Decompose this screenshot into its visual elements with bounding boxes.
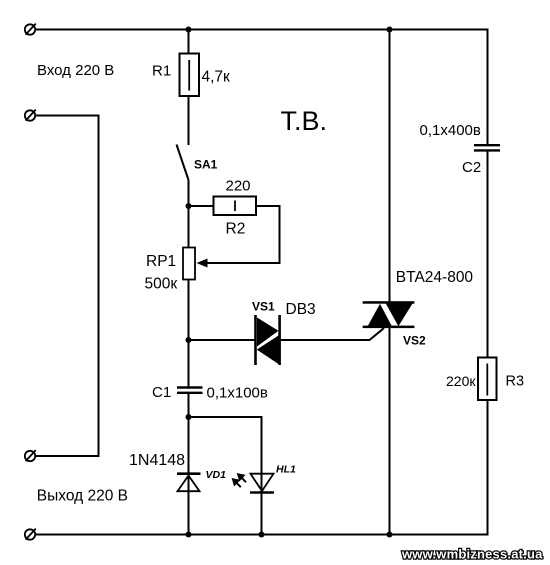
svg-text:500к: 500к (145, 276, 178, 293)
svg-text:4,7к: 4,7к (202, 69, 231, 86)
svg-text:RP1: RP1 (146, 253, 176, 270)
svg-text:0,1x100в: 0,1x100в (207, 385, 268, 402)
svg-text:R2: R2 (226, 221, 246, 238)
svg-text:www.wmbizness.at.ua: www.wmbizness.at.ua (401, 547, 543, 562)
svg-text:DB3: DB3 (286, 301, 316, 318)
svg-text:R3: R3 (506, 374, 525, 390)
svg-text:1N4148: 1N4148 (129, 452, 185, 469)
svg-text:R1: R1 (152, 63, 171, 80)
svg-text:BTA24-800: BTA24-800 (396, 269, 474, 286)
svg-text:220к: 220к (446, 373, 476, 389)
svg-text:VS2: VS2 (403, 334, 426, 348)
svg-text:VD1: VD1 (206, 469, 227, 481)
svg-text:Т.В.: Т.В. (281, 106, 328, 136)
svg-text:Выход 220 В: Выход 220 В (37, 488, 128, 505)
svg-text:0,1x400в: 0,1x400в (420, 122, 481, 139)
svg-text:VS1: VS1 (252, 300, 275, 314)
svg-text:C2: C2 (462, 159, 481, 176)
svg-text:Вход 220 В: Вход 220 В (37, 62, 114, 79)
svg-text:SA1: SA1 (194, 158, 218, 172)
svg-text:220: 220 (226, 178, 251, 195)
svg-text:HL1: HL1 (276, 464, 296, 476)
svg-text:C1: C1 (152, 384, 171, 401)
